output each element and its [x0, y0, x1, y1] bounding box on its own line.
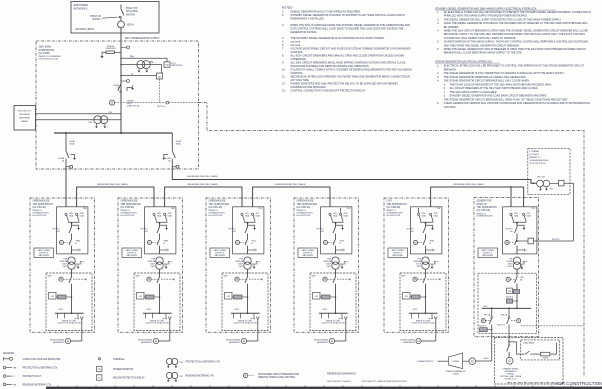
legend revenue metering CTs	[3, 383, 6, 386]
module 4 LV switchboard dashed box	[310, 273, 356, 331]
module 6 diesel generator feeder branch	[508, 308, 510, 316]
module 1 TRA substation dashed box	[30, 198, 95, 332]
svg-text:ELECTRICAL INTERLOCKS WILL BE: ELECTRICAL INTERLOCKS WILL BE PROVIDED T…	[444, 65, 585, 68]
module 1 ring switches	[65, 213, 67, 215]
module 4 P branch	[336, 249, 344, 251]
svg-text:NOTE 11: NOTE 11	[497, 324, 505, 326]
svg-text:BATTERIES: BATTERIES	[483, 254, 494, 257]
module 5 transformer TRE	[422, 257, 429, 264]
module 4 ring main unit box	[321, 207, 352, 254]
legend protection & metering VTs	[166, 358, 172, 364]
incomer earth switch	[127, 88, 133, 92]
svg-text:UNDERGROUND 33kV CABLE: UNDERGROUND 33kV CABLE	[275, 183, 306, 186]
svg-text:M: M	[159, 76, 161, 79]
svg-text:M: M	[414, 278, 416, 281]
svg-text:1.: 1.	[437, 65, 439, 68]
svg-text:GENERATOR: GENERATOR	[317, 341, 329, 344]
standby diesel generator G	[506, 357, 513, 364]
module 2 ring main unit box	[145, 207, 176, 254]
svg-text:TRA: TRA	[83, 207, 88, 210]
svg-text:BATTERIES: BATTERIES	[172, 64, 184, 67]
module 4 480V power supply box	[298, 248, 318, 258]
svg-text:PM: PM	[315, 296, 318, 298]
module 4 secondary earth	[339, 262, 345, 265]
svg-text:(C1-TRB-02): (C1-TRB-02)	[121, 206, 135, 209]
svg-text:SCHNEIDER DWG: SCHNEIDER DWG	[477, 216, 494, 218]
svg-text:a.: a.	[444, 83, 446, 86]
module 6 earth switch	[517, 225, 524, 228]
module 6 link box to LT panel NOTE 8	[516, 240, 518, 242]
load bank circuit	[509, 342, 525, 354]
svg-text:STANDBY DIESEL GENERATOR AND 3: STANDBY DIESEL GENERATOR AND 33kV MAINS …	[435, 6, 537, 10]
svg-text:REFERENCE DRAWINGS :: REFERENCE DRAWINGS :	[327, 373, 357, 376]
svg-text:STEAM GENERATOR: STEAM GENERATOR	[446, 370, 466, 373]
module 2 mobile diesel generator	[159, 340, 170, 342]
svg-text:CUP CONTROL SYSTEMS WILL LOAD: CUP CONTROL SYSTEMS WILL LOAD SHED TO EN…	[290, 26, 403, 30]
svg-text:PM: PM	[165, 64, 168, 66]
svg-text:PANEL: PANEL	[21, 120, 29, 123]
svg-text:415V: 415V	[63, 266, 68, 268]
svg-text:415V: 415V	[417, 266, 422, 268]
site boundary dashed line	[199, 103, 585, 377]
module 2 earth switch	[160, 225, 167, 228]
module 5 power monitor	[403, 293, 411, 300]
svg-text:3.: 3.	[437, 76, 439, 79]
svg-text:M: M	[506, 241, 508, 244]
svg-text:AN ELECTRICAL INTERLOCK WILL B: AN ELECTRICAL INTERLOCK WILL BE PROVIDED…	[444, 11, 591, 14]
module 6 transformer TRF	[513, 257, 520, 264]
svg-text:THE PLANT LOAD AS MEASURED AT: THE PLANT LOAD AS MEASURED AT THE 33kV M…	[450, 83, 553, 86]
module 3 ring switches	[241, 213, 243, 215]
module 6 480V power supply box	[478, 248, 498, 258]
right feeder to underground cable run A	[172, 167, 536, 184]
svg-text:No.XXXXX-XXX: No.XXXXX-XXX	[121, 215, 135, 217]
svg-text:6.6kV: 6.6kV	[483, 306, 489, 308]
svg-text:6.6kV: 6.6kV	[508, 266, 514, 268]
svg-text:(C1-TRC-03): (C1-TRC-03)	[209, 206, 223, 209]
svg-text:415V: 415V	[239, 266, 244, 268]
svg-text:(C1-HGT): (C1-HGT)	[530, 154, 540, 156]
left feeder cable down to module 1	[65, 167, 67, 207]
svg-text:PM: PM	[109, 112, 112, 114]
svg-text:UNDERGROUND 33kV CABLE: UNDERGROUND 33kV CABLE	[187, 175, 218, 178]
protection CT line P	[120, 75, 122, 77]
svg-text:not used.: not used.	[290, 43, 301, 47]
module 1 ring main unit box	[57, 207, 88, 254]
svg-text:415V: 415V	[413, 309, 418, 311]
svg-text:DWG No.XXXXX-XXX: DWG No.XXXXX-XXX	[39, 59, 60, 61]
svg-text:MOBILE GENERATOR HV/LV TO BE W: MOBILE GENERATOR HV/LV TO BE WIRED AS RE…	[290, 10, 361, 14]
svg-text:BATTERIES: BATTERIES	[127, 254, 138, 257]
svg-text:POLE TOP: POLE TOP	[126, 8, 138, 10]
module 3 earth switch	[248, 225, 255, 228]
svg-text:415V: 415V	[151, 266, 156, 268]
module 2 secondary earth	[163, 262, 169, 265]
svg-text:TRC: TRC	[258, 208, 263, 210]
svg-text:PM: PM	[180, 376, 183, 378]
pole top isolating switch	[120, 5, 122, 10]
module 4 TRD substation dashed box	[294, 198, 359, 332]
svg-text:415V: 415V	[235, 309, 240, 311]
svg-text:M: M	[324, 278, 326, 281]
svg-text:TURBINE: TURBINE	[452, 361, 459, 363]
svg-text:ELECTRICITY: ELECTRICITY	[18, 111, 32, 113]
module 6 6.6kV switchboard dashed box	[478, 273, 537, 334]
svg-text:NOTES 2 & 9: NOTES 2 & 9	[505, 378, 516, 380]
module 5 circuit breaker + motor	[423, 227, 426, 233]
module 2 transformer TRB	[156, 257, 163, 264]
svg-text:7.: 7.	[282, 47, 284, 51]
module 1 480V power supply box	[34, 248, 54, 258]
svg-text:BATTERIES: BATTERIES	[303, 254, 314, 257]
svg-text:<XXXX> FOR GH BLDG DBs: <XXXX> FOR GH BLDG DBs	[233, 322, 257, 325]
svg-text:PM: PM	[51, 296, 54, 298]
legend motorised circuit breaker	[243, 373, 247, 377]
svg-text:UNDERGROUND 33kV CABLE: UNDERGROUND 33kV CABLE	[187, 183, 218, 186]
svg-text:GENERATOR RATING.: GENERATOR RATING.	[290, 30, 317, 34]
svg-text:JHG-PW-SKT-CCH0001: JHG-PW-SKT-CCH0001	[327, 381, 352, 383]
svg-text:M: M	[60, 278, 62, 281]
svg-text:500kW: 500kW	[542, 358, 548, 360]
svg-text:REMOTE OPEN/CLOSE CONTROL: REMOTE OPEN/CLOSE CONTROL	[258, 377, 296, 379]
svg-text:3.: 3.	[282, 23, 284, 27]
svg-text:1.: 1.	[282, 10, 284, 14]
legend terminal	[98, 358, 100, 360]
svg-text:4.: 4.	[282, 36, 284, 40]
svg-text:ALL 33kV CIRCUIT BREAKERS SHAL: ALL 33kV CIRCUIT BREAKERS SHALL HAVE SPR…	[290, 61, 405, 65]
fuse circle 100CH	[118, 21, 125, 28]
module 1 circuit breaker + motor	[69, 227, 72, 233]
module 6 steam generator feeder branch	[491, 308, 493, 316]
svg-text:THE STEAM GENERATOR CIRCUIT BR: THE STEAM GENERATOR CIRCUIT BREAKER WILL…	[444, 80, 530, 83]
svg-text:No.XXXXX-XXX: No.XXXXX-XXX	[530, 163, 546, 165]
svg-text:TRD: TRD	[346, 208, 351, 210]
svg-text:TRB: TRB	[171, 208, 176, 210]
svg-text:THE STEAM GENERATOR OPERATES A: THE STEAM GENERATOR OPERATES AS A BASE L…	[444, 76, 527, 79]
module 5 mobile diesel generator	[421, 340, 436, 342]
svg-text:CONTROL.: CONTROL.	[444, 106, 457, 109]
svg-text:VOLTAGE MONITORING CIRCUIT AND: VOLTAGE MONITORING CIRCUIT AND FUSES FOR…	[290, 47, 410, 51]
module 2 generator connection	[163, 318, 169, 320]
module 5 P branch	[426, 249, 434, 251]
electricity revenue metering panel	[14, 106, 36, 131]
svg-text:TRF-2B: TRF-2B	[501, 314, 508, 316]
svg-text:SITE LAYOUT - MAJOR SERVICES R: SITE LAYOUT - MAJOR SERVICES ROUTES	[362, 380, 408, 383]
svg-text:<XXXX> FOR GH BLDG DBs: <XXXX> FOR GH BLDG DBs	[57, 322, 81, 325]
svg-text:G: G	[471, 360, 474, 364]
PM line to power monitor / RTU batteries	[120, 58, 122, 60]
svg-text:(C1-HOB): (C1-HOB)	[39, 52, 50, 55]
capacitive voltage indicator 1	[121, 47, 127, 49]
module 3 power monitor	[225, 293, 233, 300]
svg-text:UNDERGROUND 33kV CABLE: UNDERGROUND 33kV CABLE	[453, 183, 484, 186]
svg-text:PM: PM	[508, 291, 511, 293]
svg-text:DIVERTER: DIVERTER	[105, 48, 116, 50]
svg-text:415V: 415V	[59, 309, 64, 311]
svg-text:BATTERIES: BATTERIES	[393, 254, 404, 257]
svg-text:2.: 2.	[282, 13, 284, 17]
svg-text:CONTROL.: CONTROL.	[290, 71, 303, 75]
svg-text:COMMUNICATION MODULES.: COMMUNICATION MODULES.	[290, 85, 326, 89]
module 5 earth switch	[426, 225, 433, 228]
legend micom protection relay	[97, 375, 102, 380]
svg-text:WHEN THE DIESEL GENERATOR CIRC: WHEN THE DIESEL GENERATOR CIRCUIT BREAKE…	[444, 48, 587, 51]
module 5 LV incomer breaker	[413, 277, 417, 281]
module 6 6.6kV incomer breaker	[506, 277, 510, 281]
module 1 secondary earth	[75, 262, 81, 265]
module 2 480V power supply box	[122, 248, 142, 258]
svg-text:8.: 8.	[282, 54, 284, 58]
main 33kV busbar	[54, 132, 172, 134]
svg-text:BREAKER WILL CLOSE RESTORING M: BREAKER WILL CLOSE RESTORING MAINS SUPPL…	[444, 52, 523, 55]
svg-text:BATTERIES: BATTERIES	[39, 254, 50, 257]
svg-text:M: M	[149, 241, 151, 244]
svg-text:<XXXX> FOR GH BLDG DBs: <XXXX> FOR GH BLDG DBs	[145, 322, 169, 325]
svg-text:LT PANEL: LT PANEL	[530, 150, 541, 153]
svg-text:PM: PM	[550, 189, 553, 191]
wire	[120, 16, 122, 21]
svg-text:PM: PM	[89, 122, 92, 124]
svg-text:PM: PM	[180, 362, 183, 364]
svg-text:STANDBY DIESEL GENERATOR IS RA: STANDBY DIESEL GENERATOR IS RATED TO SUP…	[290, 13, 405, 17]
svg-text:PROTECTION & METERING CTs: PROTECTION & METERING CTs	[23, 368, 58, 370]
svg-text:PERMANENTLY INSTALLED.: PERMANENTLY INSTALLED.	[290, 17, 324, 21]
svg-text:2.: 2.	[437, 18, 439, 21]
svg-text:M: M	[482, 320, 484, 323]
svg-text:d.: d.	[444, 95, 446, 98]
svg-text:ALL 415V CIRCUIT BREAKERS ARE: ALL 415V CIRCUIT BREAKERS ARE MANUAL OPE…	[290, 54, 404, 58]
svg-text:GENERATOR: GENERATOR	[141, 341, 153, 344]
svg-text:800A: 800A	[176, 143, 181, 146]
module 3 transformer TRC	[244, 257, 251, 264]
svg-text:9.: 9.	[282, 61, 284, 65]
svg-text:NOTES:: NOTES:	[282, 6, 293, 10]
svg-text:OTHERWISE.: OTHERWISE.	[290, 57, 306, 61]
svg-text:ALL CIRCUIT BREAKERS AT THE 33: ALL CIRCUIT BREAKERS AT THE 33kV MAIN SW…	[450, 87, 539, 90]
svg-text:PM: PM	[150, 62, 154, 64]
svg-text:M: M	[148, 278, 150, 281]
module 1 LV incomer breaker	[59, 277, 63, 281]
module 5 480V power supply box	[388, 248, 408, 258]
module 1 P branch	[72, 249, 80, 251]
underground cable run B segments	[77, 187, 154, 207]
svg-text:POINT OF: POINT OF	[90, 16, 101, 18]
module 5 LV switchboard dashed box	[400, 273, 446, 331]
svg-text:ISOLATING: ISOLATING	[126, 10, 138, 13]
svg-text:M: M	[237, 241, 239, 244]
steam generator G	[469, 358, 476, 365]
svg-text:TRF-1B: TRF-1B	[484, 314, 491, 316]
module 2 P branch	[160, 249, 168, 251]
svg-text:NOTE 10: NOTE 10	[157, 106, 166, 108]
svg-text:STEAM GENERATOR VENDOR WILL PR: STEAM GENERATOR VENDOR WILL PROVIDE CONT…	[444, 102, 590, 105]
module 3 TRC substation dashed box	[206, 198, 271, 332]
svg-text:PM: PM	[13, 384, 16, 386]
svg-text:STANDBY DIESEL GENERATOR AND L: STANDBY DIESEL GENERATOR AND LOAD BANK C…	[450, 95, 548, 98]
module 5 ring main unit box	[411, 207, 442, 254]
svg-text:M: M	[325, 241, 327, 244]
module 3 P branch	[248, 249, 256, 251]
module 4 LV incomer breaker	[323, 277, 327, 281]
svg-text:WHEN THE 33kV CIRCUIT BREAKER: WHEN THE 33kV CIRCUIT BREAKER IS OPEN TH…	[444, 30, 588, 33]
svg-text:100CH: 100CH	[127, 25, 134, 27]
svg-text:NOTE 7: NOTE 7	[506, 296, 513, 298]
svg-text:1.: 1.	[437, 11, 439, 14]
svg-text:M: M	[415, 241, 417, 244]
module 3 generator connection	[251, 318, 257, 320]
svg-text:12.: 12.	[282, 82, 286, 86]
svg-text:THE STEAM GENERATOR CIRCUIT BR: THE STEAM GENERATOR CIRCUIT BREAKER WILL…	[444, 98, 569, 101]
svg-text:PM: PM	[227, 296, 230, 298]
svg-text:PM: PM	[139, 296, 142, 298]
svg-text:TERMINAL: TERMINAL	[113, 358, 125, 361]
motor M dashed circuit NOTE 10	[109, 100, 114, 105]
module 3 480V power supply box	[210, 248, 230, 258]
svg-text:NOTE 8: NOTE 8	[552, 239, 560, 241]
svg-text:7.5MVa: 7.5MVa	[452, 374, 460, 376]
svg-text:POWER MONITOR: POWER MONITOR	[113, 369, 133, 371]
feeder at x=172.3	[171, 133, 173, 151]
svg-text:NETWORKS: NETWORKS	[74, 7, 88, 10]
svg-text:MOTORISED CIRCUIT BREAKER FOR: MOTORISED CIRCUIT BREAKER FOR	[258, 373, 299, 376]
module 1 power monitor	[49, 293, 57, 300]
svg-text:PM: PM	[405, 296, 408, 298]
svg-text:MECHANICAL INTERLOCKS PREVENT: MECHANICAL INTERLOCKS PREVENT ANY MORE T…	[290, 75, 410, 79]
svg-text:No.XXXXX-XXX: No.XXXXX-XXX	[33, 215, 47, 217]
svg-text:REVENUE METERING VTs: REVENUE METERING VTs	[186, 375, 215, 377]
svg-text:UNDERGROUND 33kV CABLE: UNDERGROUND 33kV CABLE	[97, 183, 128, 186]
svg-text:B: B	[245, 373, 247, 377]
svg-text:ON RESTORATION OF THE MAINS SU: ON RESTORATION OF THE MAINS SUPPLY, THE …	[444, 41, 589, 44]
svg-text:415V: 415V	[323, 309, 328, 311]
svg-text:POWER MONITORS AND 33kV PROTEC: POWER MONITORS AND 33kV PROTECTION RELAY…	[290, 82, 398, 86]
module 1 mobile diesel generator	[71, 340, 82, 342]
svg-text:6.: 6.	[437, 48, 439, 51]
module 1 earth switch	[72, 225, 79, 228]
svg-text:No.XXXXX-XXX: No.XXXXX-XXX	[297, 215, 311, 217]
svg-text:415V: 415V	[147, 309, 152, 311]
svg-text:SOLENOIDS SUITABLE FOR REMOTE: SOLENOIDS SUITABLE FOR REMOTE OPEN/CLOSE…	[290, 64, 369, 68]
svg-text:STEAM SUPPLY: STEAM SUPPLY	[417, 360, 434, 363]
module 6 P branch	[517, 249, 525, 251]
svg-text:GENERATOR: GENERATOR	[229, 341, 241, 344]
svg-text:MICOM PROTECTION RELAY: MICOM PROTECTION RELAY	[113, 376, 145, 379]
dashed control line to boundary	[521, 325, 584, 327]
svg-text:PARALLEL WITH THE MAINS SUPPLY: PARALLEL WITH THE MAINS SUPPLY FROM ESB …	[444, 15, 528, 18]
module 2 circuit breaker + motor	[157, 227, 160, 233]
svg-text:PROTECTION CT: PROTECTION CT	[23, 376, 42, 378]
module 3 LV switchboard dashed box	[222, 273, 268, 331]
svg-text:(C1-TRE-05): (C1-TRE-05)	[387, 206, 401, 209]
module 2 ring switches	[153, 213, 155, 215]
load bank dashed box	[521, 340, 560, 360]
svg-text:10.: 10.	[282, 68, 286, 72]
svg-text:BE OPENED.: BE OPENED.	[444, 26, 460, 29]
module 5 ring switches	[418, 208, 420, 213]
customer network box	[71, 2, 159, 34]
svg-text:<XXXX> FOR GH BLDG DBs: <XXXX> FOR GH BLDG DBs	[321, 322, 345, 325]
svg-text:PROTECTION & METERING VTs: PROTECTION & METERING VTs	[186, 361, 221, 363]
svg-text:c.: c.	[444, 91, 446, 94]
standby diesel generator dashed box	[495, 338, 563, 385]
module 5 secondary earth	[429, 262, 435, 265]
svg-text:4.: 4.	[437, 30, 439, 33]
svg-text:BATTERIES: BATTERIES	[215, 254, 226, 257]
module 4 circuit breaker + motor	[333, 227, 336, 233]
legend protection metering CTs	[3, 366, 6, 369]
svg-text:11.: 11.	[282, 75, 286, 79]
svg-text:THE DIESEL GENERATOR WILL STAR: THE DIESEL GENERATOR WILL START UPON DET…	[444, 18, 562, 21]
svg-text:6.6kV: 6.6kV	[484, 358, 490, 360]
svg-text:6.: 6.	[282, 43, 284, 47]
svg-text:STEAM GENERATOR ELECTRICAL INT: STEAM GENERATOR ELECTRICAL INTERLOCK	[435, 59, 492, 63]
protection VT pair	[120, 64, 122, 66]
svg-text:(C1-TRF-06): (C1-TRF-06)	[477, 209, 491, 212]
svg-text:THE 33kV MAINS SUPPLY IS AVAIL: THE 33kV MAINS SUPPLY IS AVAILABLE.	[450, 91, 498, 94]
svg-text:2.: 2.	[437, 72, 439, 75]
module 6 ring main unit box	[503, 207, 537, 254]
module 4 generator connection	[339, 318, 345, 320]
svg-text:FOR CONSTRUCTION: FOR CONSTRUCTION	[556, 381, 602, 386]
module 3 circuit breaker + motor	[245, 227, 248, 233]
svg-text:ANY ONE TIME.: ANY ONE TIME.	[290, 78, 309, 82]
svg-text:REFER TO: REFER TO	[530, 157, 541, 159]
legend protection CT	[3, 375, 6, 378]
LT panel link box	[550, 182, 559, 184]
svg-text:M: M	[507, 278, 509, 281]
module 6 circuit breaker + motor	[515, 227, 518, 233]
svg-text:b.: b.	[444, 87, 446, 90]
svg-text:No.XXXXX-XXX: No.XXXXX-XXX	[209, 215, 223, 217]
svg-text:PM: PM	[13, 368, 16, 370]
svg-text:SCHNEIDER DWG: SCHNEIDER DWG	[530, 160, 549, 162]
module 2 TRB substation dashed box	[118, 198, 183, 332]
module 3 secondary earth	[251, 262, 257, 265]
svg-text:TRE: TRE	[437, 208, 442, 210]
svg-text:REVENUE: REVENUE	[20, 114, 31, 116]
micom relay box M	[161, 65, 163, 73]
svg-text:BATTERY LIMITS: BATTERY LIMITS	[76, 28, 95, 31]
svg-text:M: M	[236, 278, 238, 281]
svg-text:AND THEN OPEN THE DIESEL GENER: AND THEN OPEN THE DIESEL GENERATOR CIRCU…	[444, 44, 520, 47]
svg-text:PM: PM	[130, 57, 134, 59]
svg-text:HGT CB: HGT CB	[537, 176, 545, 178]
svg-text:RESTORING SUPPLY TO THE SITE 3: RESTORING SUPPLY TO THE SITE 33kV DISTRI…	[444, 33, 586, 36]
svg-text:not used.: not used.	[290, 39, 301, 43]
module 4 power monitor	[313, 293, 321, 300]
svg-text:(C1-TRD-04): (C1-TRD-04)	[297, 206, 311, 209]
revenue metering VT pair	[94, 116, 102, 124]
module 5 generator connection	[429, 318, 435, 320]
module 2 power monitor	[137, 293, 145, 300]
legend capacitive voltage indicator	[3, 357, 5, 361]
svg-text:<XXXX> FOR GH BLDG DBs: <XXXX> FOR GH BLDG DBs	[411, 322, 435, 325]
svg-text:SUPPLY: SUPPLY	[92, 19, 101, 21]
module 3 LV incomer breaker	[235, 277, 239, 281]
svg-text:800A: 800A	[70, 143, 75, 146]
svg-text:5.: 5.	[437, 102, 439, 105]
svg-text:THE STEAM GENERATOR IS ONLY PE: THE STEAM GENERATOR IS ONLY PERMITTED TO…	[444, 72, 565, 75]
svg-text:33kV UNDERGROUND SUPPLY: 33kV UNDERGROUND SUPPLY	[125, 37, 161, 40]
incomer wire down to busbar	[120, 28, 122, 133]
svg-text:CONTROL CONNECTION TO BECKHOFF: CONTROL CONNECTION TO BECKHOFF PROTECTIO…	[290, 89, 366, 93]
svg-text:5.: 5.	[437, 41, 439, 44]
svg-text:LOAD BANK: LOAD BANK	[523, 341, 535, 344]
svg-text:13.: 13.	[282, 89, 286, 93]
LT panel dashed box	[528, 148, 570, 194]
module 3 mobile diesel generator	[247, 340, 258, 342]
svg-text:(C1-TRA-01): (C1-TRA-01)	[33, 206, 47, 209]
